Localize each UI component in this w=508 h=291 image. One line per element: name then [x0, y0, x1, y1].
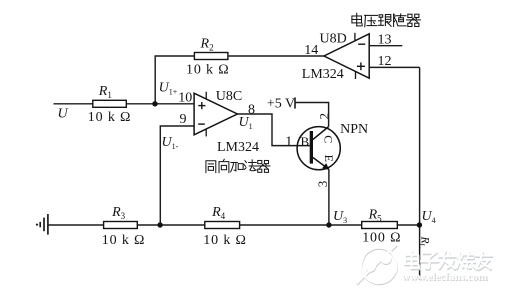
wire: R3 to R4	[137, 224, 205, 226]
svg-text:U: U	[58, 107, 69, 122]
svg-text:12: 12	[378, 54, 392, 69]
op-amp U8D power tick top	[354, 33, 356, 40]
svg-text:10 k Ω: 10 k Ω	[88, 110, 132, 125]
svg-text:LM324: LM324	[217, 140, 259, 155]
resistor R3	[104, 222, 138, 229]
wire: R2 to op-amp U8D output pin 14	[228, 55, 324, 57]
svg-text:U8C: U8C	[216, 89, 242, 104]
wire: +5V supply to transistor collector pin 2	[295, 103, 329, 127]
wire: U8C pin 9 from U1- vertical	[160, 126, 194, 225]
wire: U8D pin 13 stub	[369, 45, 402, 47]
op-amp U8C plus sign	[198, 102, 205, 109]
svg-text:B: B	[301, 134, 310, 149]
svg-text:13: 13	[378, 33, 392, 48]
op-amp U8D plus sign	[357, 62, 365, 70]
svg-text:10: 10	[178, 90, 192, 105]
transistor Q1 emitter line with arrow	[313, 158, 329, 170]
watermark key icon	[357, 246, 397, 285]
wire: U8C output pin 8 over and down to transistor base pin 1	[237, 114, 309, 146]
op-amp U8D minus sign	[358, 43, 365, 45]
wire: R5 to node U4	[397, 224, 419, 226]
svg-text:U8D: U8D	[320, 31, 347, 46]
wire: R4 through node U3 to R5	[240, 224, 362, 226]
caption: non-inverting adder (tong xiang jia fa qi)	[206, 159, 270, 172]
wire: U8D pin 12 to right rail	[369, 66, 419, 68]
op-amp U8C triangle	[194, 93, 237, 135]
op-amp U8C minus sign	[198, 123, 205, 125]
svg-text:C: C	[321, 135, 335, 143]
svg-text:NPN: NPN	[340, 122, 368, 137]
resistor R4	[205, 222, 240, 229]
svg-text:14: 14	[304, 43, 318, 58]
svg-text:3: 3	[315, 181, 330, 188]
wire: load RL below node U4	[419, 225, 421, 280]
svg-text:10 k Ω: 10 k Ω	[102, 233, 146, 248]
op-amp U8D power tick bottom	[355, 72, 357, 79]
resistor R5	[362, 222, 398, 229]
transistor Q1 collector line	[313, 127, 329, 140]
node A junction dot (R1/R2/pin10)	[152, 101, 157, 106]
transistor Q1 NPN circle	[297, 127, 340, 170]
node U4 junction dot	[417, 222, 422, 227]
caption: voltage follower (dian ya gen sui qi)	[352, 13, 420, 27]
svg-text:www.elecfans.com: www.elecfans.com	[402, 271, 488, 283]
op-amp U8C power tick top	[205, 92, 207, 99]
wire: node A up and over to resistor R2	[155, 56, 194, 104]
svg-text:+5 V: +5 V	[267, 97, 295, 112]
svg-text:100 Ω: 100 Ω	[362, 231, 401, 246]
wire: right rail down to node U4	[419, 67, 421, 225]
ground	[36, 214, 48, 235]
transistor Q1 base bar	[310, 131, 313, 164]
resistor R2	[194, 53, 228, 60]
wire: R1 to op-amp U8C pin 10	[126, 103, 194, 105]
node U3 junction dot	[326, 222, 331, 227]
op-amp U8D triangle	[324, 34, 369, 78]
resistor R1	[93, 100, 127, 107]
op-amp U8C power tick bottom	[205, 129, 207, 136]
svg-text:10 k Ω: 10 k Ω	[186, 63, 230, 78]
svg-text:2: 2	[317, 113, 332, 120]
svg-text:10 k Ω: 10 k Ω	[203, 233, 247, 248]
watermark text: dian zi fa shao you	[406, 253, 492, 271]
svg-text:1: 1	[285, 134, 292, 149]
wire: transistor emitter pin 3 down to node U3	[328, 169, 330, 225]
node junction dot (U1- to bottom rail)	[157, 222, 162, 227]
svg-text:E: E	[322, 155, 336, 162]
wire: ground to resistor R3	[48, 224, 104, 226]
svg-text:LM324: LM324	[302, 67, 344, 82]
wire: input U to resistor R1	[54, 103, 93, 105]
svg-text:9: 9	[180, 112, 187, 127]
svg-text:8: 8	[248, 102, 255, 117]
+5V supply bar	[294, 97, 296, 108]
